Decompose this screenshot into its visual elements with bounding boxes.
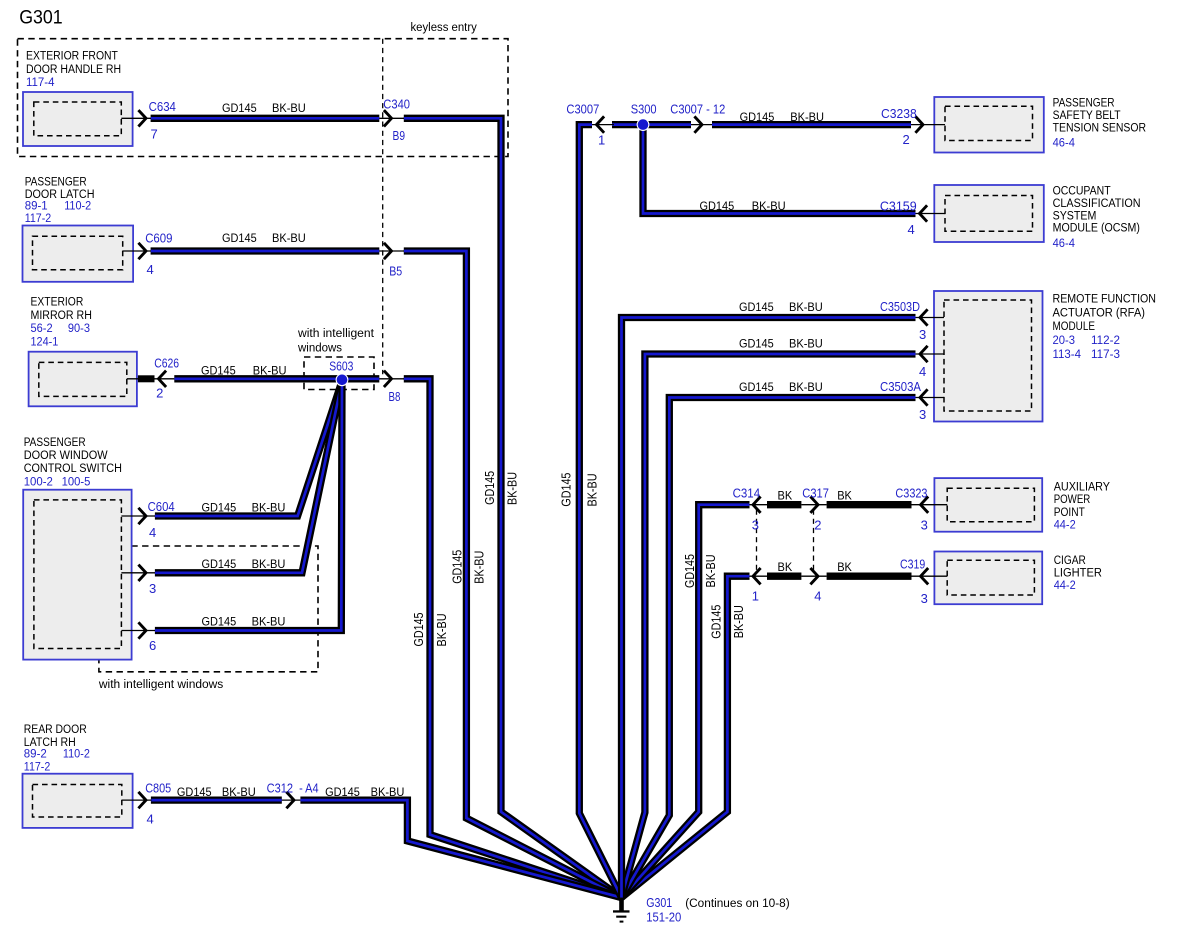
dashed connector link C317 between rows (813, 510, 815, 572)
svg-text:3: 3 (752, 517, 759, 532)
svg-text:GD145: GD145 (202, 500, 237, 514)
label GD145 BK-BU switch pin4 (202, 500, 286, 514)
svg-text:C319: C319 (900, 556, 925, 571)
svg-text:BK-BU: BK-BU (703, 555, 718, 588)
connector C3323 pin 3 (895, 485, 928, 532)
connector C3503D pin 3 (880, 299, 928, 342)
svg-text:BK-BU: BK-BU (790, 110, 824, 124)
connector C3007 pin 12 (670, 102, 725, 133)
lead C3238 (911, 124, 945, 126)
svg-text:PASSENGER: PASSENGER (24, 435, 86, 449)
svg-text:C3007 - 12: C3007 - 12 (670, 102, 725, 117)
wire BK: C317 to C3323 segment (827, 501, 912, 508)
svg-text:4: 4 (147, 812, 154, 827)
label GD145 BK-BU row C634 (222, 101, 306, 115)
title G301 (19, 6, 63, 28)
connector C317 pin 4 (810, 568, 821, 604)
svg-text:GD145: GD145 (411, 613, 426, 647)
keyless entry dashed boundary box (18, 20, 509, 157)
component EXTERIOR MIRROR RH (29, 294, 137, 406)
svg-text:3: 3 (919, 327, 926, 342)
lead C604 pin6 (121, 630, 155, 632)
svg-text:BK-BU: BK-BU (789, 300, 823, 314)
svg-text:S603: S603 (329, 359, 353, 374)
wire BK: pin4 to C319 segment (827, 573, 912, 580)
component AUXILIARY POWER POINT (934, 478, 1110, 532)
svg-text:BK-BU: BK-BU (222, 785, 256, 799)
wire BK: C314 to C317 segment (767, 501, 801, 508)
connector C314 pin 1 (752, 568, 761, 604)
connector C3238 pin 2 (881, 106, 923, 147)
svg-text:GD145: GD145 (202, 557, 237, 571)
label GD145 BK-BU switch pin6 (202, 614, 286, 628)
lead C604 pin4 (121, 515, 155, 517)
svg-text:G301: G301 (19, 6, 63, 28)
svg-text:BK: BK (837, 488, 852, 502)
wire GD145 BK-BU: switch pin 4 to S603 (155, 381, 342, 516)
connector C340 pin B8 (384, 371, 401, 405)
wire BK: cigar row pin1 to pin4 segment (767, 573, 801, 580)
wire GD145 BK-BU: C312 to G301 (300, 800, 621, 898)
svg-text:MIRROR RH: MIRROR RH (31, 308, 92, 322)
lead cigar pin4 (801, 575, 826, 577)
wire GD145 BK-BU: C3007 pin1 / S300 row to G301 (579, 125, 621, 898)
wire GD145 BK-BU: switch pin 3 to S603 (155, 381, 342, 573)
connector C604 pin 6 (138, 622, 156, 653)
wire GD145 BK-BU: B5 to G301 (404, 251, 622, 898)
wire GD145 BK-BU: C340/B9 to G301 (404, 118, 622, 897)
svg-text:BK-BU: BK-BU (272, 231, 306, 245)
svg-text:124-1: 124-1 (31, 335, 59, 349)
svg-text:TENSION SENSOR: TENSION SENSOR (1053, 120, 1147, 134)
connector C3159 pin 4 (880, 199, 927, 237)
svg-text:C805: C805 (145, 780, 171, 795)
wire GD145 BK-BU: C634 to C340 segment (151, 115, 380, 122)
svg-text:BK-BU: BK-BU (272, 101, 306, 115)
svg-text:ACTUATOR (RFA): ACTUATOR (RFA) (1053, 305, 1146, 319)
svg-text:GD145: GD145 (700, 199, 735, 213)
svg-text:2: 2 (814, 517, 821, 532)
label GD145 BK-BU switch pin3 (202, 557, 286, 571)
component PASSENGER DOOR LATCH (23, 174, 134, 281)
connector C805 pin 4 (138, 780, 171, 826)
svg-text:90-3: 90-3 (68, 321, 90, 335)
svg-text:GD145: GD145 (222, 231, 257, 245)
svg-text:keyless entry: keyless entry (411, 20, 478, 34)
svg-text:windows: windows (297, 340, 342, 354)
svg-text:BK-BU: BK-BU (789, 336, 823, 350)
connector RFA pin 4 (919, 346, 928, 379)
wire GD145 BK-BU: S300 to C3007-12 segment (612, 121, 691, 128)
wire GD145 BK-BU: S300 to C3159 (OCSM) (643, 125, 916, 214)
svg-text:20-3: 20-3 (1053, 333, 1076, 347)
label GD145 BK-BU vertical C3007 wire (559, 473, 600, 507)
svg-text:with intelligent: with intelligent (297, 326, 375, 340)
lead C805 (122, 799, 152, 801)
svg-text:BK-BU: BK-BU (472, 551, 487, 584)
svg-text:46-4: 46-4 (1053, 136, 1075, 150)
svg-text:89-2: 89-2 (24, 746, 47, 760)
connector C3007 pin 1 (566, 102, 605, 148)
svg-text:GD145: GD145 (222, 101, 257, 115)
svg-text:with intelligent windows: with intelligent windows (98, 677, 223, 691)
label GD145 BK-BU row C805 (177, 785, 256, 799)
svg-text:C3503D: C3503D (880, 299, 920, 314)
dashed connector link C314 between rows (756, 510, 758, 572)
svg-text:EXTERIOR FRONT: EXTERIOR FRONT (26, 48, 118, 62)
lead C3007 pin1 (592, 124, 614, 126)
svg-text:100-2: 100-2 (24, 474, 53, 488)
lead C340 (379, 117, 404, 119)
label GD145 BK-BU row RFA pin4 (739, 336, 823, 350)
connector C626 pin 2 (154, 356, 179, 401)
svg-text:BK-BU: BK-BU (252, 500, 286, 514)
lead C3503D (916, 317, 945, 319)
svg-text:MODULE: MODULE (1053, 319, 1096, 333)
svg-text:3: 3 (919, 407, 926, 422)
wire GD145 BK-BU: C609 to B5 segment (151, 247, 380, 254)
svg-text:S300: S300 (631, 102, 657, 117)
lead C314 (750, 504, 768, 506)
svg-text:C3503A: C3503A (880, 379, 921, 394)
svg-text:BK-BU: BK-BU (371, 785, 405, 799)
svg-text:BK-BU: BK-BU (585, 474, 600, 507)
wire GD145 BK-BU: RFA pin 4 to G301 (622, 354, 916, 898)
svg-text:2: 2 (156, 385, 163, 400)
label GD145 BK-BU row C3238 (740, 110, 824, 124)
svg-text:4: 4 (919, 364, 926, 379)
connector C340 pin B9 (383, 97, 410, 144)
svg-text:4: 4 (149, 525, 156, 540)
connector C340 pin B5 (384, 243, 402, 278)
splice S603 (329, 359, 353, 386)
svg-text:110-2: 110-2 (64, 199, 91, 213)
lead C626 (127, 378, 175, 380)
wire GD145 BK-BU: C319 row to G301 (622, 576, 750, 897)
label GD145 BK-BU row C3503D (739, 300, 823, 314)
svg-text:B5: B5 (389, 263, 402, 278)
wire GD145 BK-BU: switch pin 6 to S603 (155, 381, 342, 631)
connector C319 pin 3 (900, 556, 928, 606)
lead RFA pin4 (916, 353, 945, 355)
svg-text:2: 2 (903, 132, 910, 147)
svg-text:BK-BU: BK-BU (252, 557, 286, 571)
note continues on 10-8 (685, 896, 790, 910)
component OCCUPANT CLASSIFICATION SYSTEM MODULE (OCSM) (934, 184, 1140, 251)
wire GD145 BK-BU: C3007-12 to C3238 segment (712, 121, 911, 128)
svg-text:56-2: 56-2 (31, 321, 53, 335)
svg-text:B8: B8 (389, 389, 401, 404)
svg-text:- A4: - A4 (299, 780, 319, 795)
connector C604 pin 3 (138, 565, 156, 596)
label BK aux segment 2 (837, 488, 852, 502)
svg-text:BK-BU: BK-BU (434, 614, 449, 647)
svg-text:C634: C634 (149, 99, 176, 114)
svg-text:GD145: GD145 (740, 110, 775, 124)
wire GD145 BK-BU: C626 to S603 to B8 segment (174, 375, 379, 382)
dashed in-line connector line C340 (B9/B5/B8) (382, 39, 384, 375)
svg-text:BK-BU: BK-BU (789, 380, 823, 394)
svg-text:44-2: 44-2 (1054, 578, 1076, 592)
lead C3007 pin12 (691, 124, 712, 126)
svg-text:B9: B9 (393, 128, 406, 143)
connector C3503A pin 3 (880, 379, 928, 422)
svg-text:REMOTE FUNCTION: REMOTE FUNCTION (1053, 291, 1157, 305)
component REAR DOOR LATCH RH (23, 722, 133, 828)
svg-text:3: 3 (921, 591, 928, 606)
label GD145 BK-BU vertical C319 wire (709, 605, 746, 639)
wire GD145 BK-BU: C3503D to G301 (center vertical) (622, 318, 916, 898)
svg-text:112-2: 112-2 (1091, 333, 1120, 347)
svg-text:DOOR WINDOW: DOOR WINDOW (24, 448, 108, 462)
svg-text:GD145: GD145 (682, 554, 697, 588)
label BK cigar segment 1 (778, 560, 793, 574)
dashed option box "with intelligent windows" around switch pins 3 and 6 (98, 546, 318, 691)
svg-text:C312: C312 (267, 780, 293, 795)
svg-text:BK-BU: BK-BU (752, 199, 786, 213)
connector C609 pin 4 (138, 231, 172, 277)
wire GD145 BK-BU: C314 row to G301 (622, 505, 750, 898)
wire GD145 BK-BU: C3503A to G301 (622, 398, 916, 898)
component PASSENGER DOOR WINDOW CONTROL SWITCH (23, 435, 131, 660)
label GD145 BK-BU row C626 (201, 363, 287, 377)
svg-text:46-4: 46-4 (1053, 236, 1075, 250)
svg-text:1: 1 (752, 589, 759, 604)
svg-text:CONTROL SWITCH: CONTROL SWITCH (24, 461, 122, 475)
svg-text:44-2: 44-2 (1054, 517, 1076, 531)
wire GD145 BK-BU: C805 to C312 segment (151, 796, 282, 803)
lead B8 (379, 378, 404, 380)
svg-text:BK-BU: BK-BU (252, 614, 286, 628)
svg-text:GD145: GD145 (201, 363, 236, 377)
lead C3323 (912, 504, 948, 506)
svg-text:117-2: 117-2 (25, 211, 52, 225)
label GD145 BK-BU row C3503A (739, 380, 823, 394)
svg-text:C626: C626 (154, 356, 179, 371)
svg-text:GD145: GD145 (739, 380, 774, 394)
svg-text:GD145: GD145 (739, 300, 774, 314)
ground G301 symbol (613, 898, 630, 923)
svg-text:GD145: GD145 (177, 785, 212, 799)
label GD145 BK-BU row C312 (325, 785, 404, 799)
lead C3159 (916, 213, 946, 215)
svg-text:BK-BU: BK-BU (505, 472, 520, 505)
connector C604 pin 4 (138, 499, 174, 540)
svg-text:C340: C340 (383, 97, 410, 112)
svg-text:GD145: GD145 (482, 471, 497, 505)
svg-text:113-4: 113-4 (1053, 347, 1082, 361)
lead C312 (282, 799, 301, 801)
wire GD145 BK-BU: B8 to G301 (404, 379, 622, 898)
svg-text:7: 7 (151, 127, 158, 142)
svg-text:C3007: C3007 (566, 102, 599, 117)
svg-text:(Continues on 10-8): (Continues on 10-8) (685, 896, 790, 910)
component PASSENGER SAFETY BELT TENSION SENSOR (934, 96, 1146, 153)
svg-text:3: 3 (149, 581, 156, 596)
lead C609 (123, 250, 151, 252)
svg-text:6: 6 (149, 638, 156, 653)
lead C317 (801, 504, 826, 506)
lead B5 (379, 250, 404, 252)
label BK aux segment 1 (778, 488, 793, 502)
svg-text:REAR DOOR: REAR DOOR (24, 722, 87, 736)
label GD145 BK-BU vertical B9 wire (482, 471, 520, 505)
svg-text:GD145: GD145 (450, 550, 465, 584)
svg-text:BK: BK (778, 488, 793, 502)
svg-text:BK-BU: BK-BU (731, 605, 746, 638)
svg-text:3: 3 (921, 517, 928, 532)
svg-text:DOOR HANDLE RH: DOOR HANDLE RH (26, 62, 121, 76)
label BK cigar segment 2 (837, 560, 852, 574)
svg-text:MODULE (OCSM): MODULE (OCSM) (1053, 221, 1140, 235)
connector C634 pin 7 (138, 99, 176, 142)
lead cigar pin1 (750, 575, 768, 577)
svg-text:4: 4 (147, 262, 154, 277)
lead C319 (912, 575, 948, 577)
svg-text:GD145: GD145 (325, 785, 360, 799)
svg-text:G301: G301 (646, 895, 672, 910)
splice S300 (631, 102, 657, 131)
svg-text:C317: C317 (802, 485, 829, 500)
svg-text:GD145: GD145 (709, 605, 724, 639)
svg-text:151-20: 151-20 (646, 910, 681, 925)
svg-text:BK: BK (778, 560, 793, 574)
svg-text:BK: BK (837, 560, 852, 574)
svg-text:117-4: 117-4 (26, 75, 55, 89)
label GD145 BK-BU row C3159 (700, 199, 786, 213)
component CIGAR LIGHTER (934, 552, 1102, 605)
svg-text:GD145: GD145 (202, 614, 237, 628)
svg-text:C3159: C3159 (880, 199, 917, 214)
svg-text:1: 1 (598, 132, 605, 147)
label GD145 BK-BU vertical B8 wire (411, 613, 449, 647)
svg-text:4: 4 (908, 222, 915, 237)
component REMOTE FUNCTION ACTUATOR (RFA) MODULE (934, 291, 1156, 422)
label GD145 BK-BU vertical B5 wire (450, 550, 487, 584)
svg-text:100-5: 100-5 (62, 474, 91, 488)
connector C312 pin A4 (267, 780, 319, 808)
wire BK: C626 black stub (138, 375, 155, 382)
svg-text:GD145: GD145 (559, 473, 574, 507)
connector C314 pin 3 (733, 485, 761, 532)
svg-text:C3323: C3323 (895, 485, 927, 500)
svg-text:C314: C314 (733, 485, 761, 500)
svg-text:110-2: 110-2 (63, 746, 90, 760)
lead C634 (121, 117, 151, 119)
ground label G301 151-20 (646, 895, 681, 925)
svg-text:4: 4 (814, 589, 821, 604)
lead C3503A (916, 397, 945, 399)
dashed option box "with intelligent windows" around S603 (297, 326, 375, 390)
svg-text:C604: C604 (148, 499, 175, 514)
svg-text:117-2: 117-2 (24, 759, 51, 773)
svg-text:C3238: C3238 (881, 106, 917, 121)
label GD145 BK-BU row C609 (222, 231, 306, 245)
component EXTERIOR FRONT DOOR HANDLE RH (23, 48, 133, 146)
svg-text:C609: C609 (145, 231, 172, 246)
svg-text:GD145: GD145 (739, 336, 774, 350)
lead C604 pin3 (121, 572, 155, 574)
connector C317 pin 2 (802, 485, 829, 532)
svg-text:BK-BU: BK-BU (253, 363, 287, 377)
svg-text:EXTERIOR: EXTERIOR (31, 294, 84, 308)
svg-text:117-3: 117-3 (1091, 347, 1120, 361)
label GD145 BK-BU vertical C314 wire (682, 554, 718, 588)
